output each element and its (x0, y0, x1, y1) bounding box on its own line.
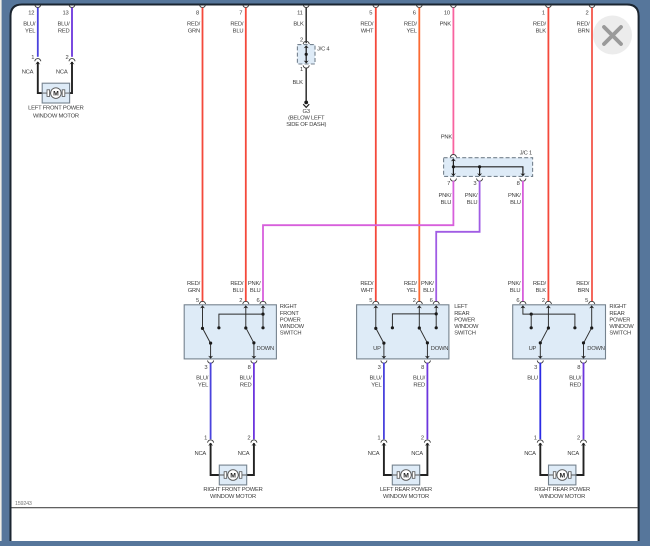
svg-text:YEL: YEL (198, 383, 209, 389)
svg-text:(BELOW LEFT: (BELOW LEFT (288, 116, 325, 122)
svg-text:UP: UP (373, 346, 381, 352)
svg-text:1: 1 (204, 435, 207, 441)
svg-text:BLU: BLU (510, 288, 521, 294)
svg-text:NCA: NCA (238, 451, 250, 457)
svg-text:RED/: RED/ (533, 281, 547, 287)
svg-text:RED/: RED/ (404, 22, 418, 28)
svg-text:LEFT: LEFT (454, 304, 468, 310)
svg-text:RIGHT FRONT POWER: RIGHT FRONT POWER (203, 487, 262, 493)
svg-text:BLU/: BLU/ (239, 375, 252, 381)
svg-text:BRN: BRN (578, 288, 590, 294)
svg-text:J/C 1: J/C 1 (520, 151, 532, 157)
svg-text:BLK: BLK (292, 80, 303, 86)
svg-text:BLU: BLU (441, 200, 452, 206)
svg-text:NCA: NCA (368, 451, 380, 457)
svg-text:YEL: YEL (406, 288, 417, 294)
svg-text:3: 3 (534, 365, 537, 371)
svg-text:BLU/: BLU/ (369, 375, 382, 381)
svg-text:RED/: RED/ (230, 281, 244, 287)
svg-text:NCA: NCA (195, 451, 207, 457)
svg-text:WINDOW: WINDOW (609, 324, 634, 330)
svg-text:LEFT FRONT POWER: LEFT FRONT POWER (28, 106, 84, 112)
svg-text:2: 2 (421, 435, 424, 441)
svg-text:FRONT: FRONT (280, 311, 300, 317)
svg-text:5: 5 (196, 298, 199, 304)
svg-text:BRN: BRN (578, 29, 590, 35)
svg-text:BLU: BLU (233, 29, 244, 35)
svg-text:WHT: WHT (361, 288, 374, 294)
svg-text:POWER: POWER (454, 317, 475, 323)
svg-text:UP: UP (529, 346, 537, 352)
svg-text:NCA: NCA (411, 451, 423, 457)
svg-text:PNK: PNK (440, 22, 452, 28)
svg-text:BLK: BLK (293, 22, 304, 28)
svg-text:10: 10 (444, 11, 450, 17)
svg-text:WHT: WHT (361, 29, 374, 35)
svg-text:POWER: POWER (280, 317, 301, 323)
svg-text:RED/: RED/ (404, 281, 418, 287)
svg-text:BLU/: BLU/ (569, 375, 582, 381)
svg-text:PNK/: PNK/ (465, 193, 478, 199)
svg-text:YEL: YEL (406, 29, 417, 35)
svg-text:REAR: REAR (454, 311, 469, 317)
svg-text:2: 2 (300, 37, 303, 43)
svg-text:2: 2 (247, 435, 250, 441)
svg-text:8: 8 (577, 365, 580, 371)
svg-text:PNK/: PNK/ (439, 193, 452, 199)
svg-text:PNK/: PNK/ (508, 193, 521, 199)
svg-text:WINDOW: WINDOW (454, 324, 479, 330)
svg-text:1: 1 (542, 11, 545, 17)
svg-text:3: 3 (204, 365, 207, 371)
svg-text:SWITCH: SWITCH (280, 331, 302, 337)
svg-text:BLU/: BLU/ (413, 375, 426, 381)
svg-text:BLU: BLU (423, 288, 434, 294)
svg-text:M: M (230, 472, 236, 479)
svg-text:8: 8 (517, 181, 520, 187)
svg-text:RED: RED (570, 383, 582, 389)
svg-text:2: 2 (542, 298, 545, 304)
svg-text:WINDOW MOTOR: WINDOW MOTOR (210, 494, 256, 500)
svg-text:SIDE OF DASH): SIDE OF DASH) (286, 122, 326, 128)
svg-text:BLU: BLU (233, 288, 244, 294)
svg-text:J/C 4: J/C 4 (317, 47, 330, 53)
svg-text:8: 8 (196, 11, 199, 17)
svg-text:BLU: BLU (250, 288, 261, 294)
svg-text:2: 2 (413, 298, 416, 304)
svg-text:RED/: RED/ (577, 22, 591, 28)
svg-text:BLU: BLU (527, 375, 538, 381)
svg-text:5: 5 (369, 11, 372, 17)
svg-text:6: 6 (256, 298, 259, 304)
svg-text:2: 2 (65, 55, 68, 61)
svg-text:BLU/: BLU/ (23, 22, 36, 28)
svg-text:YEL: YEL (371, 383, 382, 389)
svg-text:13: 13 (62, 11, 68, 17)
svg-text:WINDOW MOTOR: WINDOW MOTOR (539, 494, 585, 500)
svg-text:BLU/: BLU/ (57, 22, 70, 28)
svg-text:PNK/: PNK/ (508, 281, 521, 287)
svg-text:POWER: POWER (609, 317, 630, 323)
svg-text:BLU: BLU (510, 200, 521, 206)
svg-text:RED/: RED/ (533, 22, 547, 28)
svg-text:5: 5 (585, 298, 588, 304)
svg-text:RIGHT REAR POWER: RIGHT REAR POWER (534, 487, 590, 493)
svg-text:3: 3 (378, 365, 381, 371)
svg-text:PNK: PNK (441, 135, 453, 141)
svg-text:2: 2 (577, 435, 580, 441)
svg-text:RIGHT: RIGHT (280, 304, 298, 310)
svg-text:DOWN: DOWN (587, 346, 605, 352)
svg-text:2: 2 (585, 11, 588, 17)
svg-text:DOWN: DOWN (431, 346, 449, 352)
svg-text:2: 2 (239, 298, 242, 304)
svg-text:RED/: RED/ (360, 22, 374, 28)
svg-text:1: 1 (377, 435, 380, 441)
svg-text:1: 1 (534, 435, 537, 441)
svg-text:7: 7 (239, 11, 242, 17)
svg-text:12: 12 (28, 11, 34, 17)
svg-text:RED: RED (58, 29, 70, 35)
svg-text:GRN: GRN (188, 29, 200, 35)
svg-text:1: 1 (300, 67, 303, 73)
svg-text:WINDOW MOTOR: WINDOW MOTOR (383, 494, 429, 500)
svg-text:1: 1 (31, 55, 34, 61)
svg-text:REAR: REAR (609, 311, 624, 317)
svg-text:NCA: NCA (524, 451, 536, 457)
svg-text:RED: RED (413, 383, 425, 389)
svg-text:M: M (559, 472, 565, 479)
svg-text:YEL: YEL (25, 29, 36, 35)
svg-text:RED: RED (240, 383, 252, 389)
svg-text:RED/: RED/ (187, 281, 201, 287)
svg-text:RED/: RED/ (187, 22, 201, 28)
svg-text:BLU: BLU (467, 200, 478, 206)
svg-text:8: 8 (248, 365, 251, 371)
svg-text:6: 6 (430, 298, 433, 304)
svg-text:WINDOW: WINDOW (280, 324, 305, 330)
svg-text:BLU/: BLU/ (196, 375, 209, 381)
svg-text:M: M (53, 91, 59, 98)
svg-text:6: 6 (516, 298, 519, 304)
svg-text:LEFT REAR POWER: LEFT REAR POWER (380, 487, 432, 493)
svg-text:11: 11 (297, 11, 303, 17)
svg-text:DOWN: DOWN (257, 346, 275, 352)
svg-text:RED/: RED/ (230, 22, 244, 28)
svg-text:6: 6 (413, 11, 416, 17)
svg-text:SWITCH: SWITCH (609, 331, 631, 337)
svg-text:BLK: BLK (536, 29, 547, 35)
svg-text:M: M (403, 472, 409, 479)
svg-text:G3: G3 (303, 109, 310, 115)
svg-text:RED/: RED/ (576, 281, 590, 287)
svg-text:RIGHT: RIGHT (609, 304, 627, 310)
svg-text:7: 7 (447, 181, 450, 187)
svg-text:8: 8 (421, 365, 424, 371)
svg-text:PNK/: PNK/ (421, 281, 434, 287)
svg-text:WINDOW MOTOR: WINDOW MOTOR (33, 113, 79, 119)
svg-text:NCA: NCA (22, 70, 34, 76)
svg-text:BLK: BLK (536, 288, 547, 294)
svg-text:NCA: NCA (567, 451, 579, 457)
svg-text:GRN: GRN (188, 288, 200, 294)
svg-text:SWITCH: SWITCH (454, 331, 476, 337)
svg-text:3: 3 (473, 181, 476, 187)
svg-text:RED/: RED/ (360, 281, 374, 287)
svg-text:5: 5 (369, 298, 372, 304)
svg-text:NCA: NCA (56, 70, 68, 76)
svg-text:159243: 159243 (15, 501, 32, 507)
svg-text:PNK/: PNK/ (248, 281, 261, 287)
